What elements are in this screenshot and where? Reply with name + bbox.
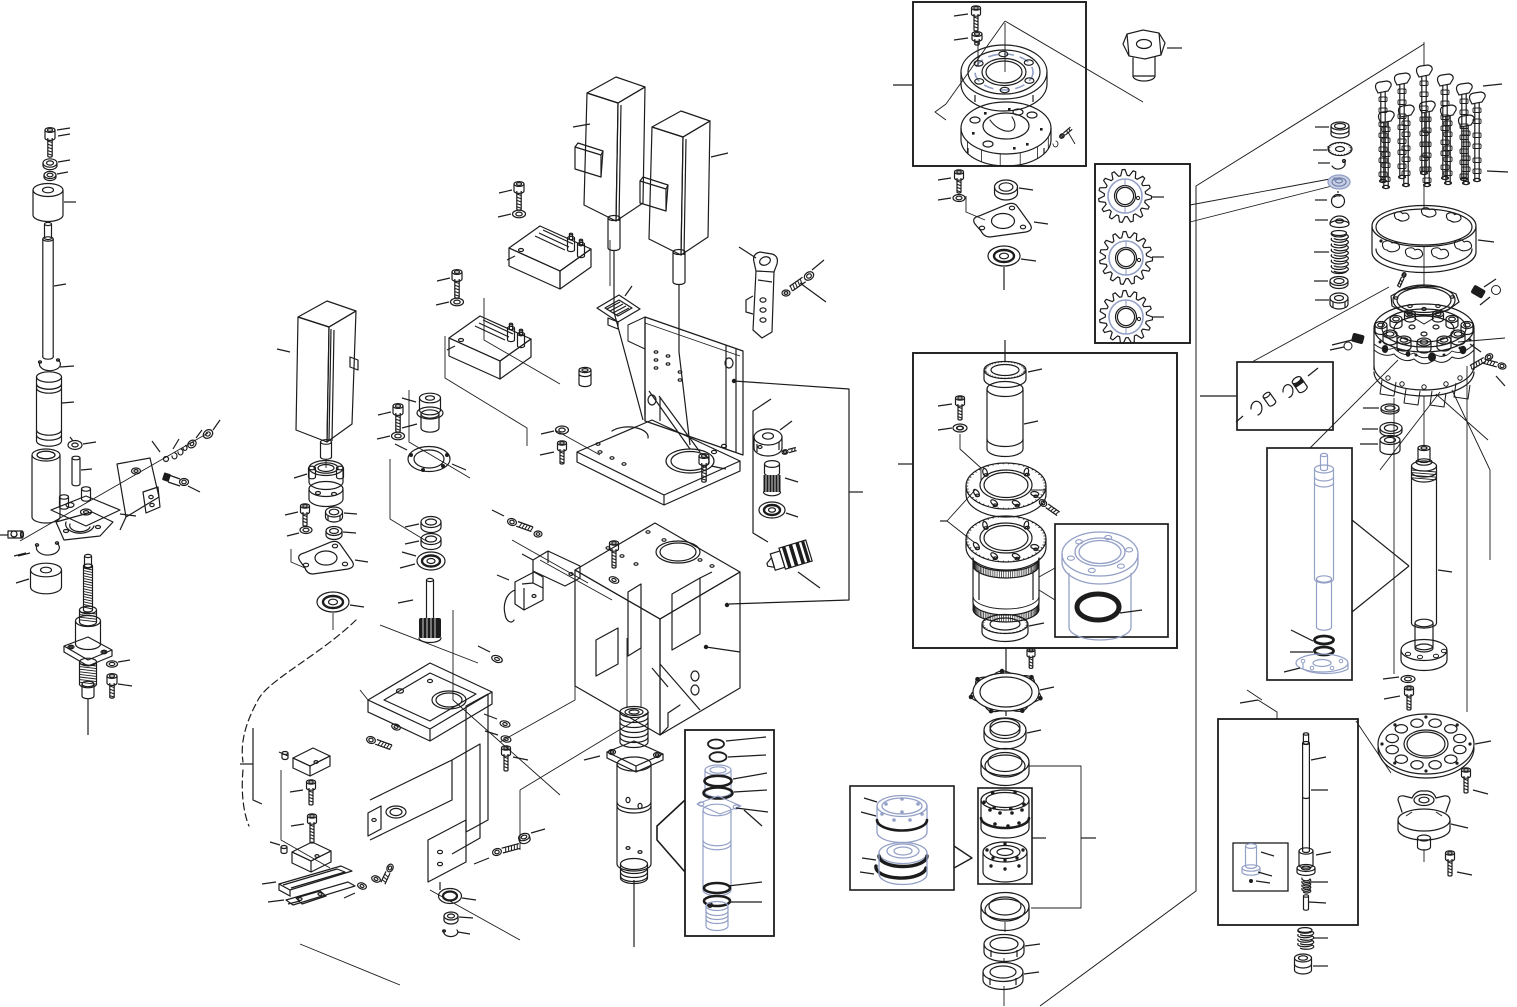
screw n	[938, 396, 965, 420]
right bracket mid	[1029, 766, 1096, 908]
lead screw assembly	[64, 554, 112, 735]
washer c	[541, 426, 569, 434]
bolt c	[540, 441, 567, 464]
guide tube	[32, 449, 60, 523]
lower housing	[575, 523, 740, 735]
tower3 stem	[321, 440, 332, 468]
cap nut s3	[1360, 436, 1400, 455]
box contents	[1236, 368, 1318, 422]
screw h	[502, 746, 529, 771]
ghost drum 2	[860, 843, 927, 885]
c-frame bracket	[368, 663, 492, 890]
perforated drum 2	[983, 842, 1027, 882]
inner detail box	[1055, 524, 1168, 637]
cap nut w	[1295, 954, 1329, 974]
valve block B	[447, 316, 531, 379]
switch screw 2	[291, 814, 317, 843]
bearing q3	[981, 893, 1029, 931]
pump washer	[287, 527, 312, 537]
gearbox pointer	[1190, 179, 1332, 222]
pivot axis line	[20, 433, 208, 541]
box1 axis line	[978, 23, 1005, 72]
lower housing leader	[704, 645, 740, 652]
inner box thin	[1233, 843, 1288, 891]
washer m	[938, 195, 985, 221]
push rod	[43, 222, 66, 359]
box1 screw2	[954, 32, 982, 46]
screw B2	[378, 404, 403, 433]
slotted bar	[262, 866, 355, 905]
screw i	[474, 844, 520, 864]
ghost drum 1	[861, 796, 927, 843]
sleeve cyl	[987, 382, 1038, 457]
detail box small parts	[1200, 362, 1333, 430]
pump screw	[285, 504, 310, 526]
switch 2	[270, 842, 331, 872]
pump triangle gasket	[291, 541, 368, 574]
ring nut 1	[984, 935, 1040, 962]
flange ring 1	[966, 463, 1046, 517]
pump nut 1	[326, 507, 358, 522]
perforated drum 1	[981, 790, 1029, 838]
o-ring a	[708, 737, 766, 749]
ball bearing r	[759, 502, 798, 518]
screw A	[499, 182, 524, 211]
small parts switch	[344, 863, 394, 898]
bearing g	[439, 889, 477, 904]
box1 screw	[954, 6, 981, 31]
ghost piston	[697, 765, 768, 931]
knurled ring top	[984, 340, 1042, 388]
planet gear 1	[1099, 170, 1152, 223]
bearing k	[400, 552, 445, 570]
valve spools	[1376, 42, 1509, 189]
screw under plate	[699, 454, 726, 483]
piston rings top	[620, 707, 648, 748]
ring nut 2	[983, 963, 1039, 990]
solenoid tower 1	[575, 77, 645, 221]
bearing m	[988, 246, 1036, 290]
circlip	[39, 359, 75, 371]
upper housing	[577, 317, 743, 505]
solenoid tower 3	[277, 301, 358, 442]
bearing q1	[984, 718, 1041, 749]
ghost shaft	[1284, 453, 1348, 673]
nut g	[444, 912, 473, 924]
screw v	[1446, 851, 1473, 876]
box shaft leader	[1247, 690, 1262, 700]
rotor screws right	[1470, 344, 1507, 386]
detail box drums	[978, 788, 1032, 884]
piston body	[617, 757, 651, 947]
ghost drums arrow	[954, 846, 972, 868]
switch leader frame	[240, 728, 262, 804]
washer h2	[485, 731, 512, 743]
thin shaft	[1297, 733, 1331, 910]
washer B	[436, 298, 464, 306]
spring w	[1298, 928, 1328, 950]
nut k2	[405, 534, 441, 550]
box1 tiny screw	[1053, 127, 1075, 147]
tower2 leader	[711, 153, 728, 157]
ball washer blue	[1328, 175, 1350, 189]
dome piece	[1315, 216, 1349, 228]
bottom ring	[982, 615, 1044, 642]
link plate	[288, 891, 326, 904]
ghost tube	[1242, 844, 1274, 883]
clamp bracket	[51, 487, 136, 540]
ring gasket	[395, 444, 466, 472]
washer s1	[1363, 404, 1399, 414]
box1 tick	[893, 84, 913, 86]
washer h	[484, 714, 511, 728]
detail box bearing	[913, 2, 1086, 166]
fence collar group	[753, 399, 771, 542]
port disc	[1378, 714, 1491, 778]
hook clip	[1318, 160, 1346, 170]
screw diag o	[1031, 490, 1060, 516]
spring r	[1314, 231, 1348, 274]
gear ticks	[1152, 197, 1164, 317]
plug small	[579, 367, 591, 386]
screw p	[1027, 648, 1035, 668]
planet gear 3	[1100, 291, 1153, 344]
washer A	[498, 210, 526, 218]
clamp lever	[739, 247, 777, 338]
black plug right	[1470, 279, 1500, 305]
ghost bushing	[1062, 532, 1138, 640]
clip g	[443, 930, 470, 937]
pin	[72, 456, 92, 486]
screw m	[938, 170, 964, 193]
detail box gearbox housing	[898, 353, 1177, 648]
end cap	[33, 184, 76, 222]
rotor leaders	[1252, 287, 1505, 560]
nut i	[518, 829, 545, 845]
pump nut 2	[326, 527, 356, 540]
black plug left	[1330, 333, 1365, 350]
knurled plug	[764, 461, 799, 496]
bearing ring assy	[961, 45, 1047, 111]
bearing q2	[981, 749, 1029, 786]
screw t	[1384, 686, 1414, 710]
screw with black tip	[162, 472, 200, 492]
triangle gasket	[974, 203, 1048, 237]
rotor flange	[1374, 366, 1474, 712]
piston collar	[584, 741, 663, 772]
ring m	[995, 180, 1034, 200]
shaft collar	[754, 421, 797, 456]
coupling	[402, 393, 443, 432]
washer small	[44, 171, 68, 180]
construction lines	[281, 240, 649, 985]
detail box piston	[657, 730, 774, 936]
tower2 stem	[673, 250, 690, 446]
switch 1	[279, 748, 330, 776]
pump head	[294, 461, 344, 507]
screw B	[437, 270, 462, 299]
cage band	[1372, 186, 1494, 285]
switch screw 1	[290, 780, 316, 805]
piston axis lines	[627, 638, 641, 708]
washer n	[938, 424, 981, 480]
ring gear drum	[973, 558, 1039, 622]
screw, left column top	[45, 128, 70, 157]
o-ring b	[710, 752, 767, 762]
fence big	[1040, 44, 1424, 1006]
screw f	[608, 541, 619, 585]
washer B2	[377, 432, 405, 440]
bent bracket	[522, 551, 580, 588]
dashed outline	[242, 620, 356, 826]
rotor body	[1374, 304, 1474, 370]
boxC to disc pointer	[1356, 721, 1391, 773]
spool valve	[764, 540, 820, 588]
detail box ghost shaft	[1267, 448, 1409, 680]
bearing holder plate	[961, 102, 1051, 166]
pump bearing	[317, 592, 364, 630]
nut k1	[405, 517, 441, 533]
screw j	[366, 723, 402, 750]
gear washer	[1313, 143, 1352, 156]
tower1 leader	[573, 124, 590, 127]
nut r	[1315, 293, 1348, 309]
small parts chain	[152, 420, 220, 462]
steel ball	[1315, 191, 1345, 208]
circlip 2	[18, 542, 59, 556]
screw e	[492, 510, 542, 537]
planet gear 2	[1100, 232, 1153, 285]
lever screw	[782, 260, 826, 302]
callout bracket	[940, 490, 975, 543]
sleeve	[37, 372, 75, 446]
screw d	[107, 674, 132, 698]
o-ring big	[1077, 594, 1142, 620]
terminal plate	[597, 286, 640, 329]
valve block A	[507, 226, 591, 289]
detail box thin shaft	[1218, 700, 1358, 925]
rotor top plate	[1391, 285, 1459, 324]
washer t	[1383, 676, 1415, 683]
knurled shaft	[398, 578, 441, 642]
leader ticks left asm	[14, 128, 70, 556]
main shaft	[1401, 446, 1452, 671]
star gasket	[969, 648, 1054, 716]
rotor pin	[1397, 272, 1406, 288]
washer	[43, 159, 70, 170]
upper housing leader	[725, 379, 863, 607]
set screw	[0, 531, 24, 538]
screw u	[1462, 768, 1489, 794]
micro switch	[497, 572, 543, 622]
drum callout	[1039, 568, 1055, 600]
claw coupling	[1398, 791, 1468, 862]
cap r	[1315, 122, 1349, 138]
lever plate	[117, 458, 160, 530]
washer r2	[1314, 277, 1348, 289]
washer d	[107, 660, 131, 667]
mid vertical line	[1004, 922, 1005, 1006]
gear box	[1095, 164, 1190, 343]
washer f2	[478, 646, 503, 664]
eyelet ring	[68, 437, 96, 450]
solenoid tower 2	[640, 111, 710, 255]
stop ring	[16, 563, 62, 594]
flange ring 2	[966, 516, 1046, 570]
adjuster knob	[1123, 30, 1182, 81]
detail box ghost drums	[850, 786, 954, 890]
ring s2	[1362, 423, 1402, 437]
tower1 stem	[608, 216, 643, 421]
box1 pointer lines	[935, 21, 1143, 120]
